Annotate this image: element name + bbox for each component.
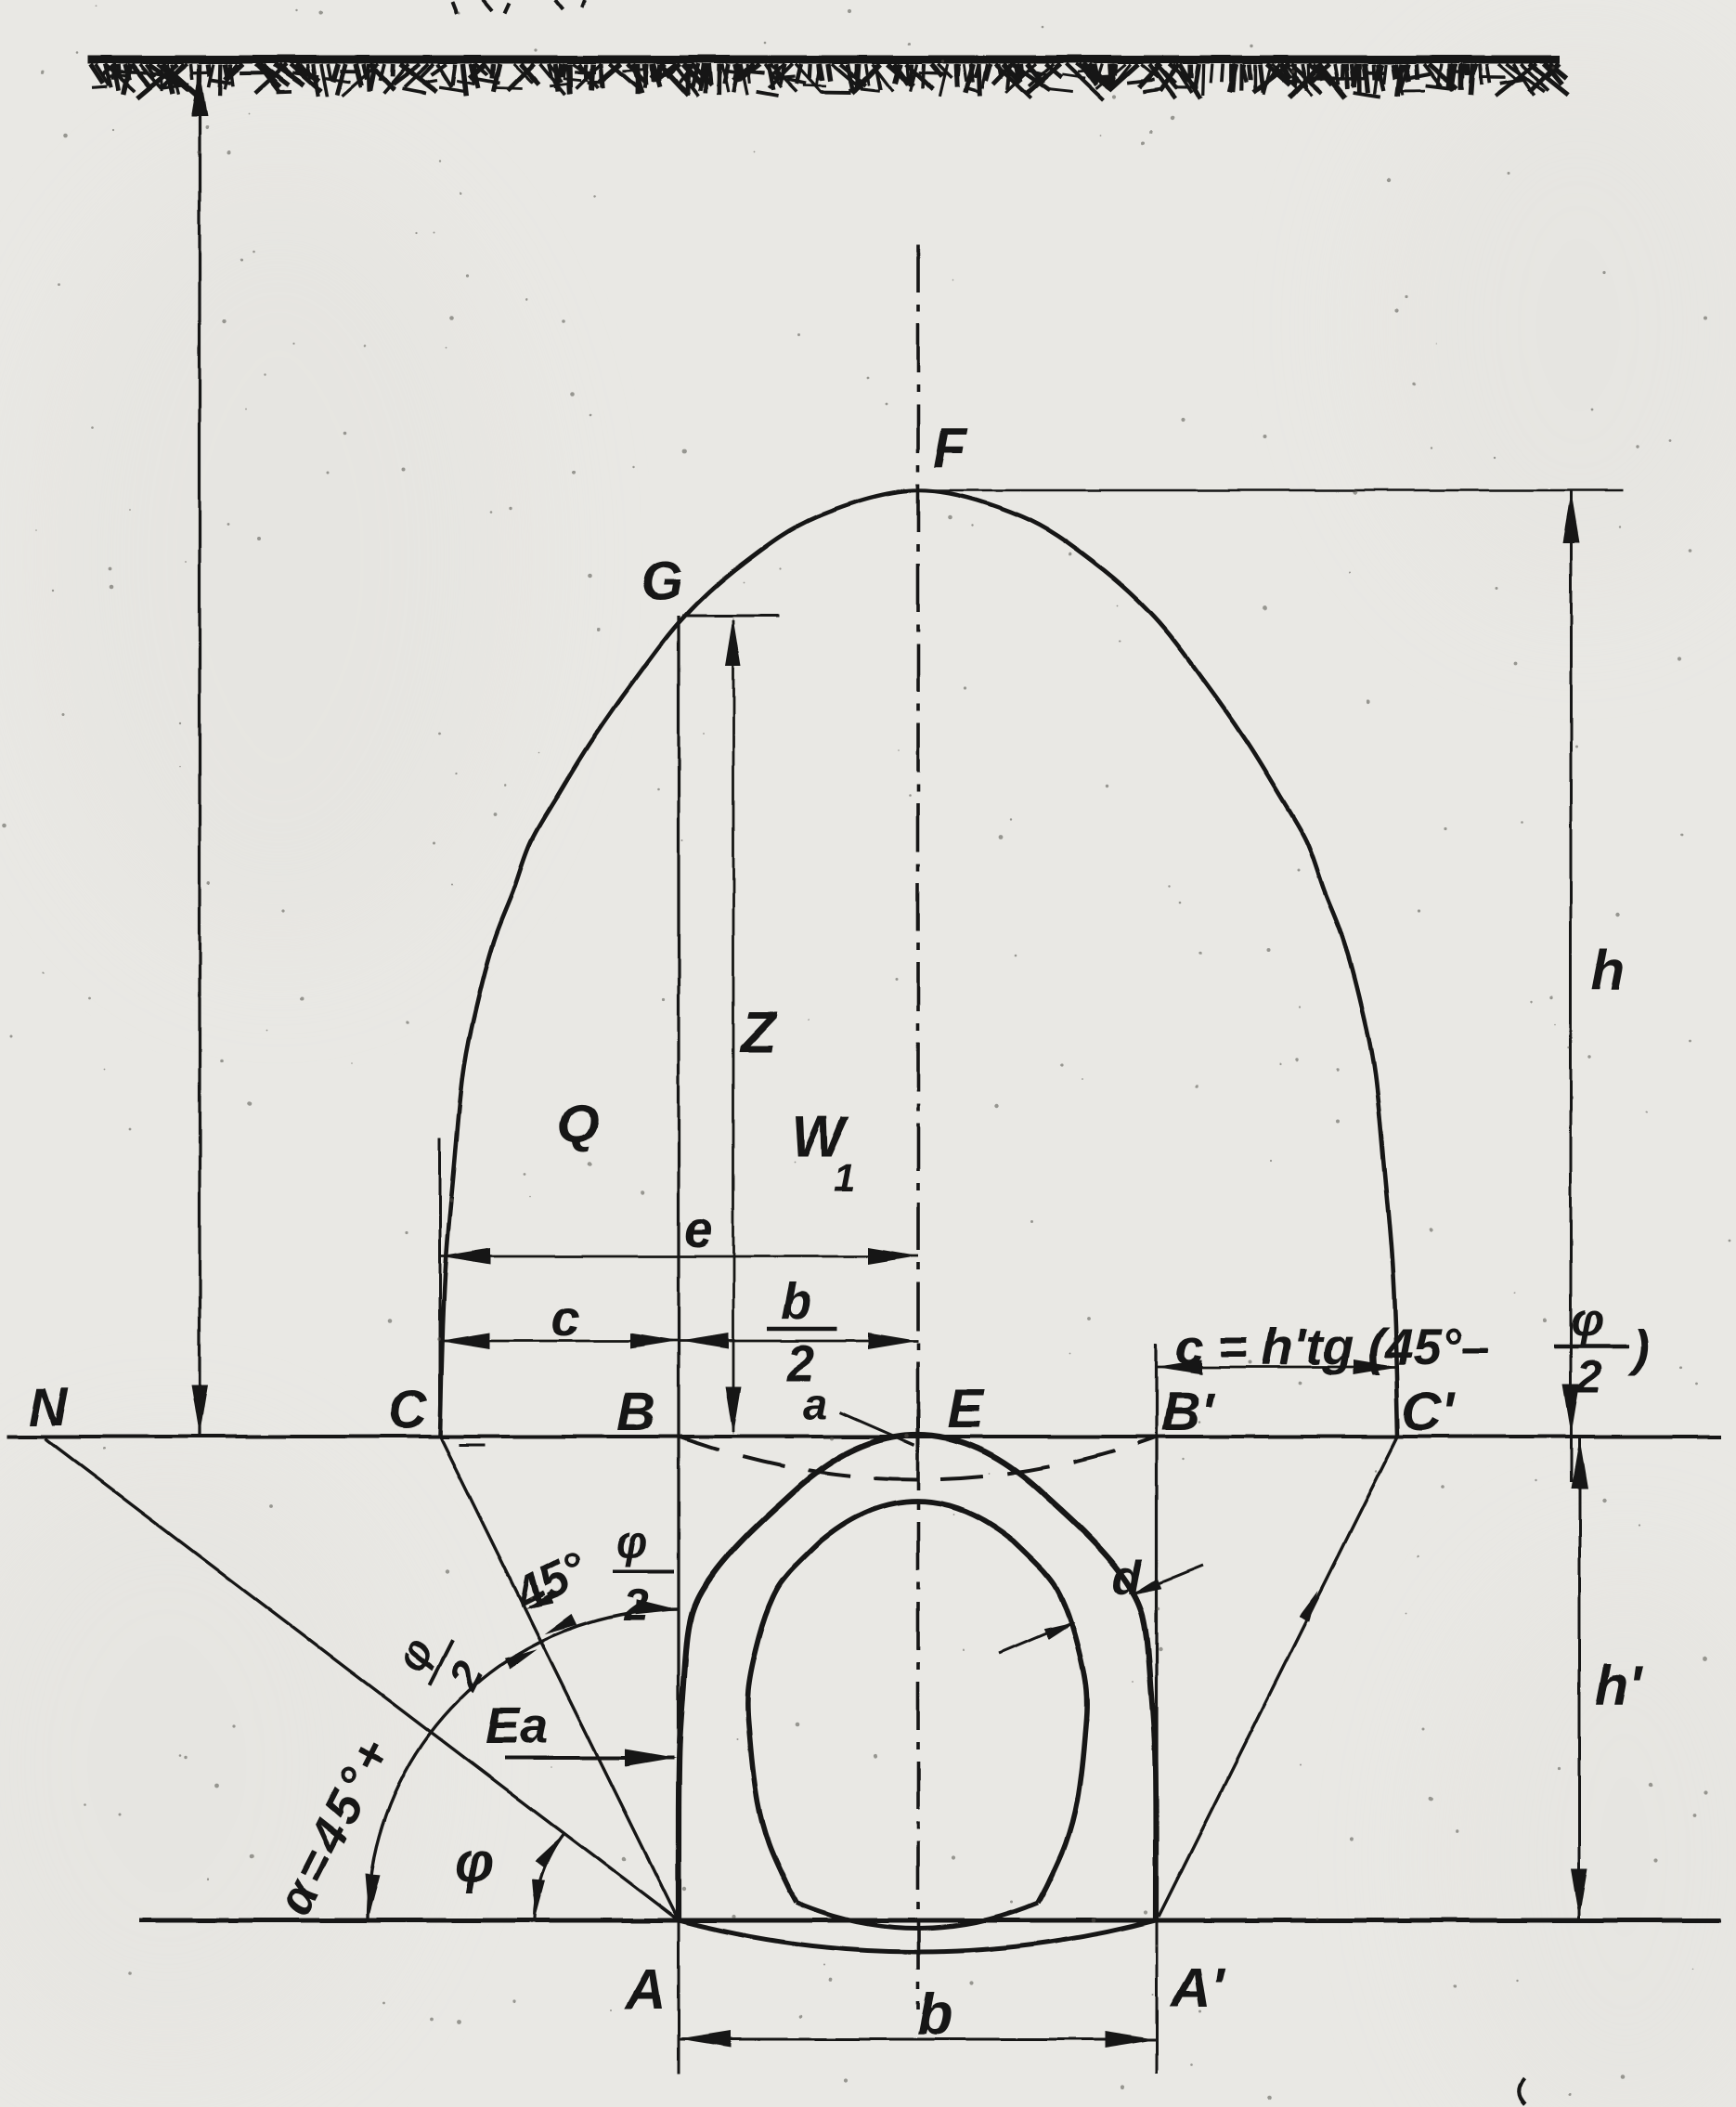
svg-text:A: A xyxy=(624,1958,666,2021)
vertical below A xyxy=(678,1920,680,2074)
c and b/2 dimension line xyxy=(440,1340,918,1343)
horizontal line from F to right xyxy=(919,489,1624,492)
svg-text:G: G xyxy=(641,552,682,612)
svg-text:A': A' xyxy=(1169,1957,1225,2019)
svg-text:φ: φ xyxy=(455,1831,494,1893)
svg-text:C: C xyxy=(388,1380,428,1440)
svg-text:1: 1 xyxy=(834,1155,855,1199)
svg-text:c: c xyxy=(551,1289,580,1346)
svg-text:φ: φ xyxy=(616,1518,648,1567)
svg-text:h: h xyxy=(1591,940,1626,1002)
vertical above C (extension line) xyxy=(439,1138,442,1438)
stray mark bottom right xyxy=(1519,2078,1525,2104)
Z dimension line xyxy=(732,620,735,1432)
svg-text:b: b xyxy=(781,1272,812,1330)
pressure dome curve C-G-F-Cp xyxy=(440,490,1398,1437)
c dimension line Bp-Cp (right) xyxy=(1157,1366,1398,1369)
hp dimension line xyxy=(1578,1438,1581,1918)
ray A to N (angle phi) xyxy=(45,1438,679,1920)
line Ap to Cp (rupture line right) xyxy=(1159,1437,1398,1917)
svg-text:2: 2 xyxy=(623,1581,649,1631)
svg-text:φ: φ xyxy=(1571,1294,1603,1346)
svg-text:Ea: Ea xyxy=(486,1697,548,1754)
svg-text:Z: Z xyxy=(739,1001,778,1065)
svg-text:Q: Q xyxy=(557,1094,599,1154)
depth dimension line H (left) xyxy=(198,65,201,1435)
tunnel lining inner profile xyxy=(747,1502,1086,1903)
label alpha=45+phi/2 (rotated) xyxy=(264,1617,499,1944)
tunnel excavation outer profile xyxy=(679,1435,1156,1920)
floor line A Ap xyxy=(139,1918,1721,1923)
svg-text:d: d xyxy=(1112,1551,1143,1605)
angle arc 45+phi/2 and 45-phi/2 (radius 335 at A) xyxy=(368,1609,679,1918)
svg-text:C': C' xyxy=(1402,1382,1456,1442)
vertical below Ap xyxy=(1156,1920,1159,2074)
e dimension line xyxy=(440,1255,918,1258)
horizontal line N C B E Bp Cp (tunnel crown level) xyxy=(7,1435,1721,1438)
stray marks at top edge xyxy=(452,0,585,14)
invert inner arc xyxy=(797,1903,1038,1929)
svg-text:c = h'tg (45°–: c = h'tg (45°– xyxy=(1175,1318,1490,1375)
svg-text:B': B' xyxy=(1161,1382,1215,1442)
h dimension line xyxy=(1570,490,1573,1482)
angle arc phi (radius 155 at A) xyxy=(535,1833,564,1918)
thickness d leader lines xyxy=(999,1624,1069,1654)
svg-text:e: e xyxy=(684,1201,713,1258)
b dimension line xyxy=(679,2038,1157,2041)
svg-text:b: b xyxy=(917,1983,952,2047)
svg-text:N: N xyxy=(29,1377,69,1437)
svg-text:2: 2 xyxy=(1575,1351,1602,1403)
short horizontal line at G xyxy=(682,615,780,618)
vertical G-B-A xyxy=(677,616,680,1920)
small tick below C xyxy=(459,1444,485,1447)
ground hatching xyxy=(91,64,1568,100)
dashed natural arch B-Bp xyxy=(679,1437,1157,1480)
leader for label a xyxy=(840,1412,914,1445)
svg-text:B: B xyxy=(616,1382,655,1442)
arrow for 45-phi/2 label xyxy=(529,1595,558,1607)
vertical Bp extension xyxy=(1155,1344,1158,1920)
invert outer arc xyxy=(679,1920,1156,1952)
svg-text:F: F xyxy=(933,417,968,479)
Ea force line xyxy=(504,1756,674,1760)
svg-text:h': h' xyxy=(1595,1655,1644,1717)
ray A to C (angle 45+phi/2) xyxy=(440,1437,679,1920)
ground surface line xyxy=(88,56,1560,64)
svg-text:a: a xyxy=(803,1380,828,1429)
centre line (dash-dot) xyxy=(916,244,920,2009)
svg-text:E: E xyxy=(948,1379,986,1439)
